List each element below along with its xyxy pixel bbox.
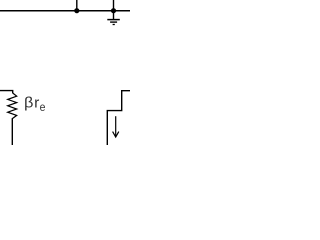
current direction arrow shaft [115, 116, 117, 136]
wire from ground node to ground symbol [113, 11, 115, 19]
svg-text:e: e [40, 100, 46, 114]
wire stub from top edge to ground node [113, 0, 115, 11]
right node wire (collector branch) [107, 91, 130, 145]
current direction arrow head [113, 132, 119, 137]
svg-text:β: β [24, 96, 33, 112]
top ground rail wire [0, 10, 130, 12]
wire from resistor bottom to emitter (bottom edge) [11, 118, 13, 145]
resistor beta-re [8, 93, 17, 119]
wire stub from top edge to node 1 [76, 0, 78, 11]
junction dot node 1 [74, 8, 79, 13]
junction dot ground node [111, 8, 116, 13]
ground [107, 20, 120, 25]
left node wire (base) [0, 91, 13, 94]
